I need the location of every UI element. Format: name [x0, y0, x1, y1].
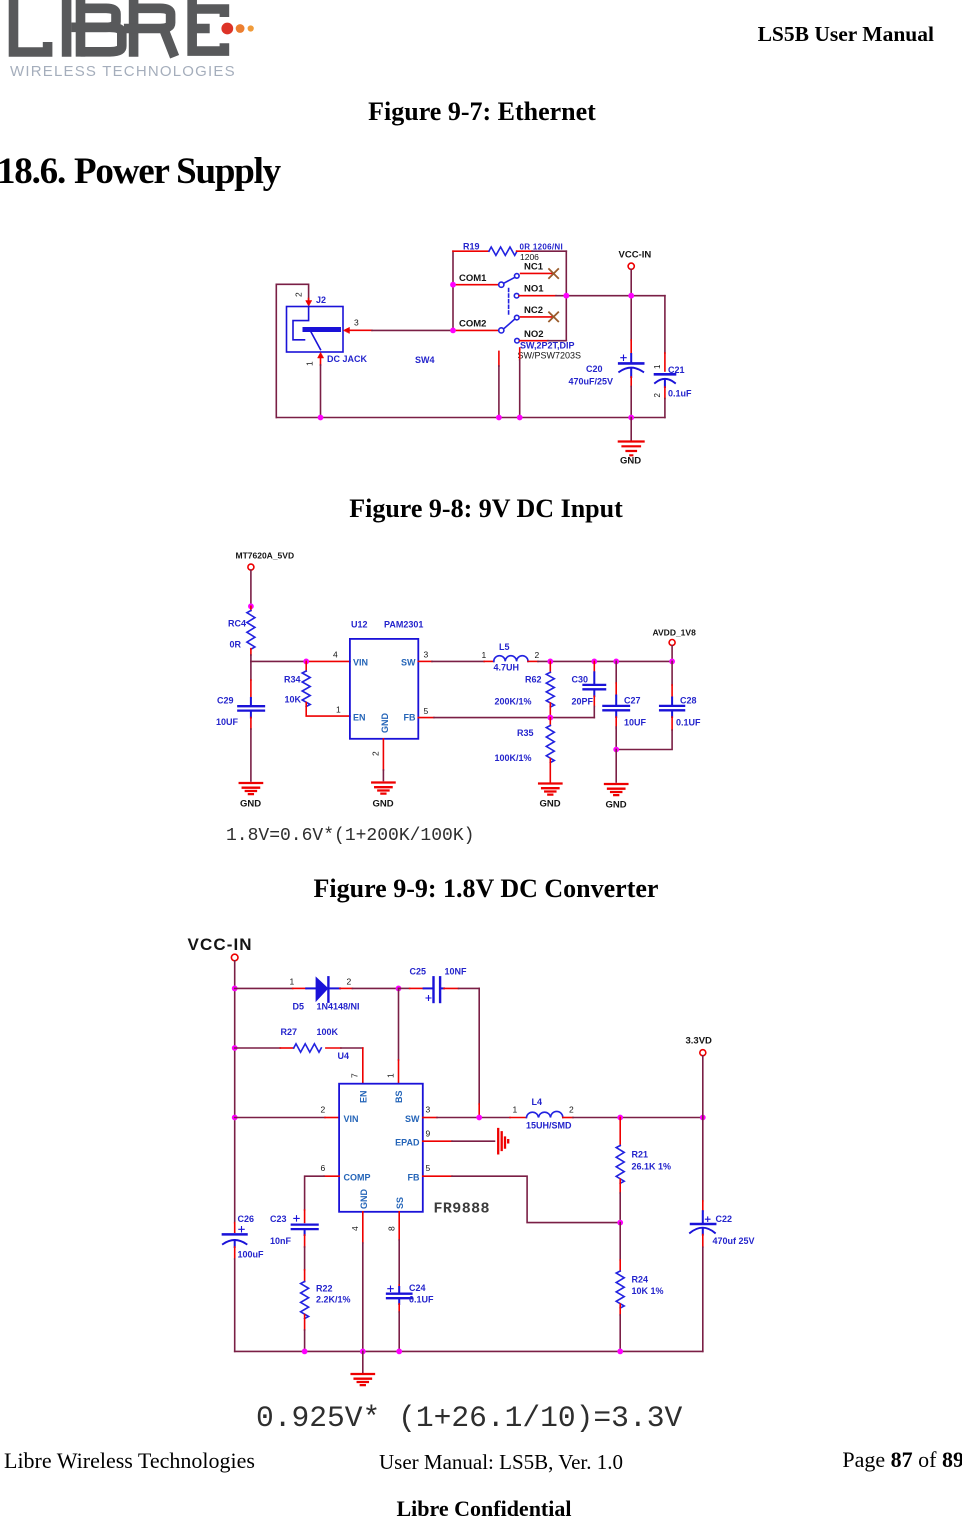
- svg-text:2: 2: [321, 1105, 326, 1115]
- svg-text:COM2: COM2: [459, 319, 486, 330]
- wire 3.3VD down to rail: [702, 1056, 704, 1118]
- U12 FB pin wire: [418, 717, 434, 719]
- NO1 net wire to VCC-IN node: [556, 295, 665, 297]
- svg-text:C30: C30: [572, 675, 589, 685]
- resistor RC4: [250, 606, 252, 610]
- svg-text:FR9888: FR9888: [434, 1201, 490, 1218]
- svg-text:4: 4: [333, 650, 338, 660]
- svg-text:0R: 0R: [230, 640, 242, 650]
- svg-text:C28: C28: [680, 696, 697, 706]
- svg-text:1206: 1206: [520, 252, 539, 262]
- capacitor C21 branch wires: [664, 296, 666, 353]
- svg-text:GND: GND: [380, 713, 390, 734]
- svg-text:L4: L4: [532, 1097, 543, 1107]
- schematic 3: 3.3V converter: [170, 925, 775, 1400]
- svg-text:R21: R21: [632, 1150, 649, 1160]
- ground symbol sideways at EPAD: [498, 1129, 508, 1153]
- junction FB divider: [617, 1220, 623, 1226]
- switch right bus vertical wire: [565, 251, 567, 341]
- junction COM2 bus: [450, 328, 456, 334]
- svg-text:1N4148/NI: 1N4148/NI: [317, 1002, 360, 1012]
- wire MT7620A_5VD down to RC4: [250, 570, 252, 606]
- wire L4 to output rail: [573, 1117, 703, 1119]
- resistor R35: [549, 718, 551, 726]
- junction VCC-IN/C20: [628, 293, 634, 299]
- svg-text:4: 4: [350, 1226, 360, 1231]
- svg-text:10K: 10K: [285, 695, 302, 705]
- svg-text:0R 1206/NI: 0R 1206/NI: [520, 243, 563, 252]
- logo letter B: [76, 0, 86, 57]
- junction R62 top: [547, 659, 553, 665]
- svg-text:1: 1: [336, 704, 341, 714]
- capacitor C22: [702, 1118, 704, 1201]
- svg-text:9: 9: [426, 1129, 431, 1139]
- svg-text:10nF: 10nF: [270, 1236, 292, 1246]
- svg-text:100K/1%: 100K/1%: [495, 753, 532, 763]
- ground symbol below rail: [352, 1374, 374, 1385]
- logo dot orange 1: [236, 24, 245, 33]
- NC1 wire: [521, 272, 552, 274]
- capacitor C26: [234, 1223, 236, 1233]
- wire left loop from DC jack pin2 to bottom rail: [276, 284, 308, 417]
- inductor L5: [494, 656, 528, 662]
- svg-text:3.3VD: 3.3VD: [686, 1036, 713, 1047]
- diode D5 cathode wire: [340, 987, 352, 989]
- NC2 wire: [521, 316, 552, 318]
- svg-text:EN: EN: [353, 712, 366, 722]
- svg-text:EN: EN: [359, 1090, 369, 1103]
- U4 EPAD pin wire: [423, 1140, 452, 1142]
- formula for 3.3V output: [256, 1401, 682, 1435]
- svg-text:SW/PSW7203S: SW/PSW7203S: [518, 351, 582, 361]
- junction VIN row: [232, 1115, 238, 1121]
- junction R24 on rail: [617, 1349, 623, 1355]
- bottom rail wire: [276, 417, 665, 419]
- svg-text:100K: 100K: [317, 1027, 339, 1037]
- ground symbol GND: [619, 442, 644, 456]
- svg-text:GND: GND: [240, 799, 261, 810]
- switch SW4 pole 2 contact: [499, 315, 519, 333]
- svg-text:NO1: NO1: [524, 284, 544, 295]
- svg-text:EPAD: EPAD: [395, 1138, 420, 1148]
- switch SW4 COM1 wire: [453, 284, 498, 286]
- svg-text:FB: FB: [404, 712, 416, 722]
- junction C20/GND on rail: [628, 415, 634, 421]
- wire VIN rail: [251, 660, 306, 662]
- svg-text:2: 2: [294, 292, 304, 297]
- svg-text:470uF/25V: 470uF/25V: [569, 377, 614, 387]
- junction C27/C28 ground: [613, 747, 619, 753]
- svg-text:1: 1: [386, 1073, 396, 1078]
- svg-text:6: 6: [321, 1163, 326, 1173]
- wire C25 to SW node: [478, 988, 480, 1104]
- svg-text:R19: R19: [463, 242, 480, 252]
- svg-text:1: 1: [290, 977, 295, 987]
- svg-text:L5: L5: [499, 642, 510, 652]
- wire C27 junction to ground: [615, 750, 617, 783]
- svg-text:R27: R27: [281, 1027, 298, 1037]
- svg-text:5: 5: [426, 1163, 431, 1173]
- wire AVDD_1V8 to rail: [671, 646, 673, 662]
- U4 SW pin wire: [423, 1117, 437, 1119]
- svg-text:C25: C25: [410, 967, 427, 977]
- svg-text:WIRELESS TECHNOLOGIES: WIRELESS TECHNOLOGIES: [10, 63, 236, 80]
- footer confidential: [0, 1496, 962, 1522]
- caption figure 9-9: [5, 874, 962, 904]
- junction FB divider: [547, 715, 553, 721]
- svg-text:C23: C23: [270, 1214, 287, 1224]
- U12 SW pin wire: [418, 660, 432, 662]
- svg-text:NC2: NC2: [524, 305, 543, 316]
- U4 COMP pin wire: [324, 1175, 339, 1177]
- footer right: [0, 1447, 962, 1473]
- junction NO1 at right bus: [563, 293, 569, 299]
- svg-text:AVDD_1V8: AVDD_1V8: [653, 628, 697, 638]
- resistor R62: [549, 661, 551, 672]
- svg-text:GND: GND: [620, 456, 641, 467]
- wire pin3 to switch COM2: [372, 329, 453, 331]
- svg-text:1: 1: [305, 361, 315, 366]
- svg-text:FB: FB: [408, 1173, 420, 1183]
- NO1 contact circle: [514, 293, 519, 298]
- resistor R21: [619, 1118, 621, 1146]
- svg-text:R22: R22: [316, 1284, 333, 1294]
- svg-text:BS: BS: [394, 1090, 404, 1103]
- svg-text:C27: C27: [624, 696, 641, 706]
- section heading 18.6 Power Supply: [0, 150, 280, 193]
- svg-text:10UF: 10UF: [216, 717, 239, 727]
- svg-text:COMP: COMP: [344, 1173, 371, 1183]
- NO2 wire to right bus: [548, 340, 566, 342]
- svg-text:PAM2301: PAM2301: [384, 620, 423, 630]
- svg-text:VIN: VIN: [353, 658, 368, 668]
- svg-text:SW: SW: [405, 1114, 420, 1124]
- junction R22 on rail: [302, 1349, 308, 1355]
- IC U12 PAM2301 body: [350, 639, 418, 739]
- svg-text:NO2: NO2: [524, 329, 544, 340]
- svg-text:1: 1: [482, 650, 487, 660]
- resistor R22: [304, 1270, 306, 1282]
- schematic 2: 1.8V converter: [200, 540, 720, 815]
- capacitor C21: [655, 374, 675, 387]
- junction AVDD/C28: [669, 659, 675, 665]
- connector J2 DC jack body: [287, 307, 344, 353]
- svg-text:GND: GND: [373, 799, 394, 810]
- pin 3 arrow and red segment: [344, 327, 373, 333]
- switch coupling dashed line: [508, 289, 510, 316]
- junction C25 right leg at SW: [476, 1115, 482, 1121]
- svg-text:C20: C20: [586, 364, 603, 374]
- svg-text:2: 2: [347, 977, 352, 987]
- svg-text:0.1uF: 0.1uF: [668, 389, 692, 399]
- svg-text:MT7620A_5VD: MT7620A_5VD: [236, 551, 295, 561]
- capacitor C24: [387, 1286, 411, 1304]
- svg-text:3: 3: [354, 318, 359, 328]
- svg-text:0.1UF: 0.1UF: [676, 718, 701, 728]
- capacitor C27: [615, 661, 617, 683]
- junction COM1/R19 bus: [450, 282, 456, 288]
- logo dot orange 2: [248, 25, 254, 31]
- NO2 wire: [520, 340, 548, 342]
- ground symbol below C29: [240, 783, 262, 794]
- svg-text:R62: R62: [525, 675, 542, 685]
- capacitor C29: [250, 661, 252, 680]
- svg-text:1: 1: [653, 364, 662, 369]
- schematic 1: 9V DC input: [250, 230, 710, 480]
- svg-text:10UF: 10UF: [624, 718, 647, 728]
- svg-text:26.1K 1%: 26.1K 1%: [632, 1162, 672, 1172]
- svg-text:SW: SW: [401, 658, 416, 668]
- svg-text:8: 8: [387, 1226, 397, 1231]
- capacitor C20 wire lower: [630, 377, 632, 387]
- svg-text:15UH/SMD: 15UH/SMD: [526, 1121, 572, 1131]
- capacitor C23: [292, 1216, 318, 1235]
- svg-text:U4: U4: [338, 1051, 350, 1061]
- svg-text:RC4: RC4: [228, 619, 246, 629]
- svg-text:U12: U12: [351, 620, 368, 630]
- resistor R19: [453, 250, 489, 252]
- svg-text:DC JACK: DC JACK: [327, 354, 368, 364]
- capacitor C30: [593, 661, 595, 672]
- capacitor C25: [399, 987, 410, 989]
- junction 3.3VD branch: [700, 1115, 706, 1121]
- junction stub A on rail: [496, 415, 502, 421]
- svg-text:D5: D5: [293, 1002, 305, 1012]
- pin 1 arrow of J2: [318, 353, 324, 366]
- svg-text:0.1UF: 0.1UF: [409, 1295, 434, 1305]
- svg-text:1: 1: [513, 1105, 518, 1115]
- svg-text:2: 2: [653, 393, 662, 398]
- svg-text:3: 3: [424, 650, 429, 660]
- footer left: [4, 1448, 255, 1474]
- junction C27 top: [613, 659, 619, 665]
- svg-text:R24: R24: [632, 1275, 649, 1285]
- junction BS/C25: [396, 986, 402, 992]
- capacitor C28: [671, 661, 673, 685]
- junction dots: [318, 282, 634, 421]
- svg-text:10K 1%: 10K 1%: [632, 1286, 664, 1296]
- U4 SS pin wire: [398, 1212, 400, 1240]
- wire L5 to AVDD rail: [528, 660, 538, 662]
- resistor R27: [235, 1047, 281, 1049]
- svg-text:COM1: COM1: [459, 273, 487, 284]
- svg-text:2: 2: [371, 751, 381, 756]
- svg-text:VCC-IN: VCC-IN: [619, 250, 652, 261]
- junction C24 on rail: [396, 1349, 402, 1355]
- svg-text:GND: GND: [540, 799, 561, 810]
- svg-text:GND: GND: [359, 1189, 369, 1210]
- U4 GND pin wire: [362, 1212, 364, 1243]
- junction R21 top: [617, 1115, 623, 1121]
- svg-text:C24: C24: [409, 1283, 426, 1293]
- junction stub B on rail: [517, 415, 523, 421]
- wire rail to ground symbol: [362, 1351, 364, 1372]
- junction R34 top: [303, 659, 309, 665]
- svg-text:SW,2P2T,DIP: SW,2P2T,DIP: [520, 341, 575, 351]
- ground wire below rail: [630, 418, 632, 441]
- svg-text:4.7UH: 4.7UH: [494, 663, 520, 673]
- wire VCC-IN to NO1 net: [630, 269, 632, 295]
- no-connect X on NC2: [549, 312, 558, 321]
- ground symbol below C27: [605, 784, 627, 795]
- svg-text:C29: C29: [217, 696, 234, 706]
- svg-text:VCC-IN: VCC-IN: [188, 935, 253, 954]
- diode D5: [306, 977, 340, 1001]
- switch mounting stub wire A: [498, 351, 500, 366]
- U4 VIN wire: [235, 1117, 325, 1119]
- left rail wire: [234, 961, 236, 1223]
- IC U4 FR9888 body: [339, 1084, 423, 1212]
- ground symbol below R35: [539, 784, 561, 795]
- svg-text:GND: GND: [606, 800, 627, 811]
- svg-text:SW4: SW4: [415, 355, 435, 365]
- capacitor C20: [619, 354, 643, 377]
- svg-text:20PF: 20PF: [572, 697, 594, 707]
- svg-text:2.2K/1%: 2.2K/1%: [316, 1295, 351, 1305]
- logo letter R: [129, 0, 139, 57]
- caption figure 9-7: [1, 97, 962, 127]
- NO2 contact circle: [515, 338, 520, 343]
- switch SW4 COM2 wire: [453, 329, 498, 331]
- wire BS pin vertical: [398, 988, 400, 1060]
- junction pin1 on rail: [318, 415, 324, 421]
- U4 FB pin wire: [423, 1175, 452, 1177]
- svg-text:100uF: 100uF: [238, 1250, 265, 1260]
- logo letter I: [62, 0, 72, 57]
- NO1 wire red: [519, 295, 556, 297]
- wire pin1 down to bottom rail: [320, 365, 322, 418]
- bottom rail wire: [235, 1350, 703, 1352]
- svg-text:R34: R34: [284, 675, 301, 685]
- svg-text:C21: C21: [668, 365, 685, 375]
- svg-text:VIN: VIN: [344, 1114, 359, 1124]
- switch SW4 pole 1 contact: [499, 274, 519, 288]
- footer center: [379, 1450, 623, 1475]
- svg-text:2: 2: [569, 1105, 574, 1115]
- svg-text:5: 5: [424, 706, 429, 716]
- diode D5 anode wire: [235, 987, 293, 989]
- capacitor C20 wire upper: [630, 296, 632, 340]
- junction R27 row: [232, 1045, 238, 1051]
- ground symbol below U12: [372, 783, 394, 794]
- formula for 1.8V output: [226, 826, 474, 846]
- logo dot red: [221, 23, 233, 35]
- header right: document title: [0, 22, 934, 47]
- svg-text:C26: C26: [238, 1214, 255, 1224]
- logo letter L: [14, 0, 48, 52]
- resistor R34: [305, 661, 307, 671]
- svg-text:J2: J2: [316, 295, 326, 305]
- svg-text:2: 2: [535, 650, 540, 660]
- svg-text:C22: C22: [716, 1214, 733, 1224]
- svg-text:7: 7: [350, 1073, 360, 1078]
- svg-text:470uf 25V: 470uf 25V: [713, 1236, 755, 1246]
- svg-text:10NF: 10NF: [445, 967, 468, 977]
- switch mounting stub wire B: [519, 348, 521, 360]
- junction at RC4 top: [248, 603, 254, 609]
- svg-text:3: 3: [426, 1105, 431, 1115]
- switch left bus vertical wire: [452, 251, 454, 330]
- logo letter E: [192, 0, 224, 51]
- inductor L4: [510, 1117, 526, 1119]
- junction C30 top: [591, 659, 597, 665]
- junction GND pin on rail: [360, 1349, 366, 1355]
- svg-text:SS: SS: [395, 1197, 405, 1209]
- pin 2 arrow of J2: [306, 299, 312, 307]
- U12 GND pin wire: [382, 739, 384, 770]
- Libre logo: [0, 0, 270, 85]
- resistor R24: [619, 1223, 621, 1260]
- svg-text:R35: R35: [517, 728, 534, 738]
- svg-text:200K/1%: 200K/1%: [495, 697, 532, 707]
- junction diode row: [232, 986, 238, 992]
- junction dots on SW rail: [547, 659, 675, 665]
- caption figure 9-8: [5, 494, 962, 524]
- svg-text:NC1: NC1: [524, 262, 544, 273]
- no-connect X on NC1: [549, 269, 558, 278]
